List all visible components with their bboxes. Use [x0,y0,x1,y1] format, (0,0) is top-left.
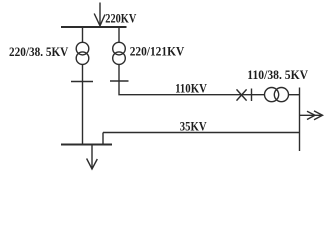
wire: right drop from 220KV bus to transformer T2 [118,27,120,42]
transformer T2 220/121KV secondary winding circle [113,52,126,65]
wire: left column below T1 down to 35KV bus [82,65,84,145]
wire: right column below T2 turning right into 110KV line [119,65,264,95]
wire: 110KV line from T3 to right riser [289,94,300,96]
svg-text:220/121KV: 220/121KV [130,44,185,58]
wire: left drop from 220KV bus to transformer T1 [82,27,84,42]
svg-text:220KV: 220KV [105,11,136,25]
outgoing load arrow shaft from lower bus (points down) [91,145,93,169]
arrowhead of incoming 220KV feeder (points down onto bus) [94,14,105,26]
wire: 35KV riser down to lower bus [102,133,104,145]
busbar 220KV (top horizontal bus) [61,26,127,28]
svg-text:110/38. 5KV: 110/38. 5KV [247,68,308,82]
transformer T2 220/121KV primary winding circle [113,42,126,55]
transformer T3 110/38.5KV primary winding circle [265,88,279,102]
tap tick on left column below T1 [71,81,93,83]
outgoing load arrowhead [87,159,98,170]
transformer T1 220/38.5KV primary winding circle [76,42,89,55]
isolator tick on 110KV line [251,89,253,102]
busbar 35KV (lower horizontal bus) [61,144,112,146]
transformer T3 110/38.5KV secondary winding circle [274,88,288,102]
svg-text:35KV: 35KV [180,120,207,134]
svg-text:220/38. 5KV: 220/38. 5KV [9,45,68,59]
breaker X on 110KV line [237,89,247,100]
wire: right vertical riser joining 110KV and 35KV lines [299,88,301,152]
wire: 220KV incoming feeder shaft [99,3,101,26]
svg-text:110KV: 110KV [175,81,207,95]
outgoing feeder arrow shaft (points right) [300,114,322,116]
tap tick on right column below T2 [110,80,129,82]
transformer T1 220/38.5KV secondary winding circle [76,52,89,65]
wire: 35KV line [103,132,300,134]
outgoing feeder arrowhead chevron 2 [307,111,315,119]
outgoing feeder arrowhead chevron 1 [314,111,323,120]
